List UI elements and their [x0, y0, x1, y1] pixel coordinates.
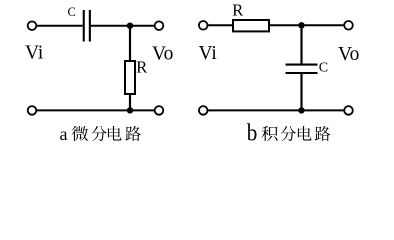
svg-text:Vi: Vi	[199, 43, 218, 64]
svg-text:b: b	[247, 119, 258, 146]
svg-text:a: a	[60, 124, 68, 144]
svg-text:R: R	[232, 1, 243, 20]
svg-text:Vo: Vo	[338, 44, 359, 65]
svg-text:Vi: Vi	[25, 42, 44, 63]
svg-text:Vo: Vo	[152, 44, 173, 65]
svg-text:R: R	[136, 58, 147, 77]
svg-text:C: C	[68, 5, 76, 19]
svg-text:C: C	[319, 60, 328, 75]
